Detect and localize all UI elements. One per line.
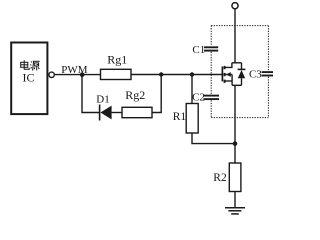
MOSFET Q1 [222, 63, 241, 86]
wire drain rail from terminal to MOSFET [234, 9, 236, 63]
wire PWM to Rg1 [54, 74, 100, 76]
dashed package outline top edge [211, 25, 268, 27]
ground [225, 208, 245, 214]
node junction dot A (PWM / D1 branch) [80, 72, 85, 77]
node junction dot D (source / R1 / R2) [233, 141, 238, 146]
wire source rail down to R2 [234, 85, 236, 163]
wire node C down to R1 [191, 75, 193, 104]
svg-text:C2: C2 [192, 92, 205, 104]
svg-text:R2: R2 [213, 172, 227, 184]
svg-text:Rg2: Rg2 [125, 88, 145, 102]
wire R2 to ground [234, 192, 236, 208]
svg-text:D1: D1 [96, 93, 109, 105]
power IC box U1 (电源 IC) [11, 43, 47, 115]
diode D1 [96, 93, 111, 120]
PWM output terminal circle on IC [49, 72, 54, 77]
dashed package outline left edge (through C1, C2) [210, 26, 212, 118]
resistor Rg2 [122, 88, 152, 118]
svg-text:IC: IC [23, 70, 35, 84]
svg-text:C3: C3 [249, 69, 262, 81]
body diode of Q1 [238, 63, 246, 86]
capacitor C1 [192, 44, 218, 56]
node junction dot B (Rg2 return) [159, 72, 163, 76]
svg-text:C1: C1 [192, 44, 205, 56]
resistor R2 [213, 163, 241, 192]
net label PWM [61, 64, 88, 76]
wire D1 to Rg2 [112, 112, 122, 114]
capacitor C3 [249, 69, 273, 81]
resistor R1 [173, 104, 199, 134]
wire Rg2 up to node B [152, 75, 161, 113]
node junction dot C (R1 tap) [190, 72, 194, 76]
svg-text:R1: R1 [173, 111, 187, 123]
wire R1 bottom to source node [192, 133, 235, 144]
wire Rg1 to MOSFET gate [131, 74, 222, 76]
capacitor C2 [192, 92, 219, 104]
wire down from node A to D1 [82, 75, 99, 113]
dashed package outline right edge (through C3) [267, 26, 269, 118]
resistor Rg1 [101, 52, 132, 79]
drain terminal circle [232, 3, 238, 9]
svg-text:Rg1: Rg1 [107, 52, 127, 66]
dashed package outline bottom edge [211, 117, 268, 119]
